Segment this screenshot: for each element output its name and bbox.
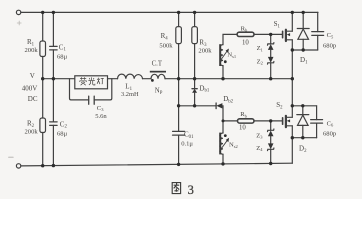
diode Db2 — [216, 103, 222, 109]
node gate bus 1 / Z1 — [269, 33, 272, 36]
svg-text:Db1: Db1 — [199, 84, 209, 93]
svg-text:0.1μ: 0.1μ — [181, 140, 193, 147]
svg-text:D1: D1 — [300, 56, 308, 65]
resistor R3 200k — [192, 27, 198, 44]
wire C2 bottom lead — [52, 125, 54, 165]
wire S2 source lead — [291, 126, 293, 138]
svg-text:Ns2: Ns2 — [229, 142, 238, 149]
node bottom rail / R2 — [41, 164, 44, 167]
winding N1 core bar — [219, 44, 221, 66]
svg-text:C.T: C.T — [152, 60, 163, 67]
diode Db1 — [192, 89, 197, 93]
wire R4 bottom / C01 column — [178, 44, 180, 132]
node N1 phase dot — [224, 60, 227, 63]
wire N1 bottom lead — [222, 66, 224, 79]
zener Z1 — [268, 43, 274, 50]
wire C2 top lead — [52, 79, 54, 122]
wire N1 top lead and gate bus 1 — [223, 34, 237, 44]
winding N2 arrow — [220, 140, 227, 150]
zener Z2 — [268, 57, 274, 64]
capacitor C01 0.1u — [173, 131, 185, 135]
wire R3 top lead — [194, 12, 196, 26]
zener Z4 — [268, 143, 274, 150]
resistor R1 200k — [40, 41, 46, 57]
wire S2 drain lead — [291, 106, 293, 118]
svg-text:C6: C6 — [327, 120, 334, 127]
wire S2 drain rail — [292, 105, 316, 107]
svg-text:C5: C5 — [327, 32, 334, 39]
wire lamp shunt cap loop left — [70, 79, 89, 100]
node S1 rail / D1 anode — [302, 48, 305, 51]
svg-text:R3: R3 — [199, 39, 207, 48]
transistor S1 (MOSFET, upper) — [283, 30, 293, 41]
wire top rail — [21, 11, 318, 13]
svg-text:200k: 200k — [25, 128, 39, 135]
wire S1 source lead — [291, 40, 293, 50]
node mid bus / N1 bottom — [221, 77, 224, 80]
terminal + (top left input terminal) — [16, 10, 20, 14]
svg-text:C1: C1 — [59, 43, 67, 52]
wire S1 source rail — [292, 49, 317, 51]
svg-text:R4: R4 — [161, 32, 169, 41]
capacitor C5 680p — [312, 32, 324, 36]
node top rail / R4 — [177, 11, 180, 14]
node mid bus / C1 C2 — [52, 77, 55, 80]
resistor R2 200k — [40, 118, 46, 133]
node CT phase dot — [151, 79, 154, 82]
terminal - (bottom left input terminal) — [16, 164, 20, 168]
node mid bus / Db1 — [193, 77, 196, 80]
node bottom rail / C01 — [177, 163, 180, 166]
node mid bus / R4 column — [177, 77, 180, 80]
wire C5 top lead — [317, 12, 319, 31]
svg-text:C2: C2 — [60, 120, 68, 129]
diode D1 (freewheel, upper) — [297, 29, 309, 40]
node bottom rail / N2 bottom — [221, 162, 224, 165]
wire Z4 bottom lead — [270, 149, 272, 163]
svg-text:NP: NP — [155, 88, 163, 96]
wire D1 anode lead — [302, 39, 304, 50]
wire mid bus right segment — [165, 78, 292, 80]
resistor Rb1 10 — [237, 32, 254, 36]
wire S2 source rail — [292, 137, 316, 139]
wire lamp shunt cap loop right — [94, 79, 112, 100]
wire L1 to CT — [143, 78, 152, 80]
svg-text:680p: 680p — [323, 130, 337, 137]
svg-text:D2: D2 — [299, 145, 307, 154]
node top rail / S1 drain — [291, 11, 294, 14]
label - polarity (faint, near bottom terminal) — [9, 156, 14, 158]
node top rail / R3 — [193, 11, 196, 14]
resistor Rb2 10 — [238, 119, 255, 123]
node S2 source rail / D2 anode — [301, 136, 304, 139]
svg-text:Z2: Z2 — [257, 58, 263, 65]
svg-text:10: 10 — [239, 124, 246, 131]
wire R2 bottom lead — [42, 133, 44, 166]
wire R1 bottom lead — [42, 57, 44, 79]
svg-text:V: V — [30, 72, 35, 80]
transistor S2 (MOSFET, lower) — [283, 116, 293, 127]
winding N1 arrow — [220, 51, 227, 61]
svg-text:Db2: Db2 — [223, 95, 233, 104]
node mid bus / R1 R2 — [41, 77, 44, 80]
svg-text:68μ: 68μ — [57, 130, 68, 137]
node S2 drain rail / D2 — [301, 104, 304, 107]
svg-text:DC: DC — [28, 95, 38, 103]
wire R3 bottom lead — [194, 44, 196, 79]
svg-text:200k: 200k — [25, 47, 39, 54]
wire N2 bottom lead — [222, 154, 224, 164]
node drive bus / Db1 anode — [193, 104, 196, 107]
node gate bus 2 / N2 column — [222, 119, 225, 122]
svg-text:C3: C3 — [97, 105, 104, 112]
node S2 source rail / source — [291, 136, 294, 139]
svg-text:68μ: 68μ — [57, 53, 68, 60]
capacitor C6 680p — [311, 120, 323, 124]
svg-text:Z1: Z1 — [257, 45, 263, 52]
winding N2 core bar — [219, 133, 221, 155]
wire R1 top lead — [42, 12, 44, 41]
wire gate bus 2 — [223, 120, 238, 122]
winding N2 (drive winding, lower) — [220, 133, 223, 154]
svg-text:400V: 400V — [22, 84, 38, 92]
wire zener Z3 top lead — [270, 121, 272, 130]
svg-text:R1: R1 — [27, 38, 35, 47]
svg-text:S1: S1 — [274, 20, 281, 29]
wire Rb1 to gate S1 — [254, 33, 283, 35]
wire S1 drain lead — [291, 12, 293, 31]
wire C6 top lead — [316, 106, 318, 120]
svg-text:3: 3 — [188, 183, 194, 197]
node S1 rail / source — [291, 48, 294, 51]
wire C5 bottom lead — [317, 35, 319, 50]
wire Z3 Z4 link — [270, 136, 272, 143]
node drive bus / C01 column — [177, 104, 180, 107]
node top rail / R1 — [41, 11, 44, 14]
wire C6 bottom lead — [316, 123, 318, 138]
wire mid bus left segment — [43, 78, 75, 80]
wire lamp to L1 — [108, 78, 118, 80]
svg-text:3.2mH: 3.2mH — [121, 91, 139, 98]
node top rail / D1 — [302, 11, 305, 14]
node gate bus 2 / Z3 — [269, 119, 272, 122]
wire drive node bus — [179, 105, 217, 107]
inductor L1 3.2mH — [118, 74, 143, 79]
wire Db1 cathode lead — [194, 79, 196, 89]
wire S2 source to bottom rail — [291, 138, 293, 164]
svg-text:500k: 500k — [159, 42, 173, 49]
resistor R4 500k — [176, 27, 182, 44]
transformer CT primary winding Np — [151, 74, 165, 78]
svg-text:Ns1: Ns1 — [227, 52, 236, 59]
wire bottom rail — [21, 163, 292, 166]
wire Db1 anode lead — [194, 93, 196, 106]
transformer CT core bar — [150, 71, 166, 73]
svg-text:Rb: Rb — [240, 111, 247, 118]
svg-text:5.6n: 5.6n — [95, 113, 107, 120]
svg-text:Z4: Z4 — [256, 145, 263, 152]
label fluorescent lamp (CJK hand-drawn) — [80, 77, 104, 85]
wire Z1 Z2 link — [270, 50, 272, 57]
wire D1 cathode lead — [302, 12, 304, 28]
node mid bus / Z2 — [269, 77, 272, 80]
node N2 phase dot — [224, 134, 227, 137]
capacitor C3 5.6n (across lamp) — [89, 96, 95, 104]
capacitor C1 68u — [50, 46, 57, 50]
fluorescent lamp box — [75, 76, 108, 89]
wire C1 bottom lead — [52, 50, 54, 79]
svg-text:Z3: Z3 — [256, 132, 263, 139]
svg-text:C01: C01 — [184, 131, 194, 140]
svg-text:Rb: Rb — [241, 25, 248, 32]
svg-text:10: 10 — [242, 39, 249, 46]
wire Db2 anode to N2 column — [221, 106, 224, 133]
wire Rb2 to gate S2 — [254, 120, 283, 122]
wire Z2 bottom lead — [270, 63, 272, 79]
svg-text:200k: 200k — [198, 48, 212, 55]
wire R4 top lead — [178, 12, 180, 26]
svg-text:S2: S2 — [276, 101, 283, 110]
capacitor C2 68u — [50, 122, 57, 126]
node bottom rail / Z4 — [269, 162, 272, 165]
node bottom rail / C2 — [52, 164, 55, 167]
wire half-bridge mid vertical — [291, 50, 293, 106]
wire zener Z1 top lead — [270, 34, 272, 44]
node top rail / C1 — [52, 11, 55, 14]
wire D2 cathode lead — [302, 106, 304, 115]
node mid bus / half-bridge mid — [291, 77, 294, 80]
svg-text:680p: 680p — [323, 42, 337, 49]
label + polarity (faint, near top terminal) — [17, 21, 21, 25]
diode D2 (freewheel, lower) — [297, 115, 309, 126]
wire C1 top lead — [52, 12, 54, 46]
winding N1 (drive winding, upper) — [220, 45, 223, 66]
node S2 drain rail / drain — [291, 104, 294, 107]
zener Z3 — [268, 129, 274, 136]
wire C01 bottom lead — [178, 135, 180, 164]
wire R2 top lead — [42, 79, 44, 118]
caption Tu 3 (figure 3, CJK hand-drawn) — [172, 183, 180, 194]
wire D2 anode lead — [302, 125, 304, 137]
